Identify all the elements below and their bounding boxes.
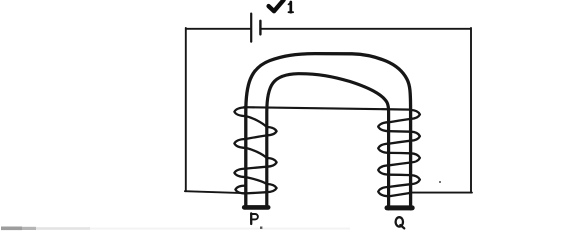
battery B1 short plate (negative) bbox=[259, 21, 261, 35]
battery B1 long plate (positive) bbox=[250, 14, 252, 42]
wire: top-left from battery to left corner bbox=[186, 28, 250, 30]
core: horseshoe outer outline with leg outer edges bbox=[246, 54, 411, 209]
core: horseshoe inner outline with leg inner edges bbox=[267, 74, 389, 209]
label: pole Q (drawn as strokes) bbox=[396, 217, 405, 228]
scan artifact: grey streak bottom-left bbox=[1, 227, 22, 231]
wire: series link between coil P and coil Q bbox=[244, 107, 411, 109]
wire: top-right from battery to right corner bbox=[262, 28, 471, 30]
wire: bottom-left to coil P bbox=[185, 191, 246, 193]
coil on pole Q (4 turns) bbox=[378, 110, 420, 196]
core: pole P bottom end bbox=[244, 205, 268, 210]
wire: right vertical side of circuit bbox=[470, 28, 472, 193]
label: mark number 1 (serif digit drawn as strokes) bbox=[288, 2, 293, 12]
tick mark (check) annotation bbox=[269, 0, 284, 11]
wire: bottom-right from coil Q bbox=[410, 192, 472, 194]
core: pole Q bottom end bbox=[387, 205, 412, 210]
scan artifact: speck near Q bbox=[439, 181, 441, 183]
wire: left vertical side of circuit bbox=[185, 28, 187, 191]
coil on pole P (4 turns) bbox=[234, 107, 276, 193]
label: pole P (drawn as strokes) bbox=[251, 213, 258, 224]
scan artifact: speck below P bbox=[260, 227, 262, 229]
